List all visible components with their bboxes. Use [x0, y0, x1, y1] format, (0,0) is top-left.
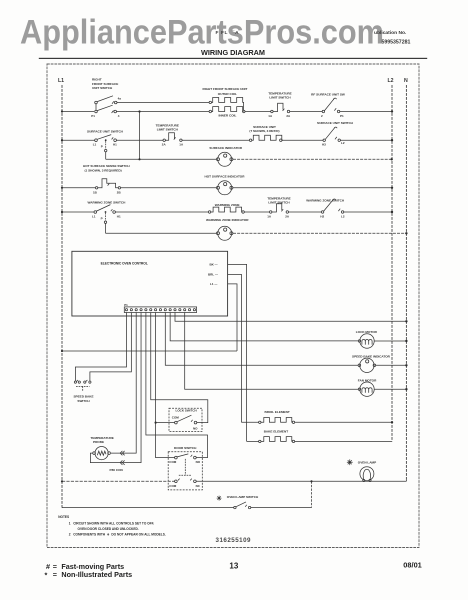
- label RIGHT FRONT SURFACE UNIT OUTER COIL: [203, 87, 248, 96]
- svg-text:COM: COM: [169, 460, 177, 464]
- svg-text:WARMING ZONE SWITCH: WARMING ZONE SWITCH: [306, 198, 345, 202]
- wire to L2 rail: [344, 211, 392, 213]
- svg-text:P: P: [101, 216, 103, 220]
- wire pigtail BRL to broil element drop: [228, 274, 242, 422]
- wire P drop warming: [104, 213, 106, 233]
- wire pin6 to lock switch NO: [151, 313, 208, 423]
- svg-text:WARMING ZONE SWITCH: WARMING ZONE SWITCH: [88, 200, 127, 204]
- wire pigtail L1 supply drop: [228, 284, 237, 351]
- svg-text:HOT SURFACE SENSE SWITCH: HOT SURFACE SENSE SWITCH: [83, 164, 130, 168]
- wire pin3 to temperature probe top: [111, 313, 136, 454]
- label R FRONT SURFACE UNIT SWITCH: [92, 78, 118, 91]
- svg-text:=: =: [53, 570, 57, 579]
- switch S12 door switch: [168, 446, 202, 490]
- svg-text:BAKE ELEMENT: BAKE ELEMENT: [264, 430, 289, 434]
- junction lamp switch riser: [310, 480, 312, 482]
- svg-text:LOCK SWITCH: LOCK SWITCH: [176, 409, 197, 413]
- junction dots L1 rail: [61, 110, 63, 112]
- junction L1 door row: [61, 480, 63, 482]
- svg-text:1 CIRCUIT SHOWN WITH ALL CON: 1 CIRCUIT SHOWN WITH ALL CONTROLS SET TO…: [69, 521, 154, 525]
- svg-text:DOOR SWITCH: DOOR SWITCH: [174, 446, 197, 450]
- motor M2 fan motor: [358, 382, 374, 396]
- connector P1 strip: [124, 307, 196, 313]
- resistor bake element: [247, 437, 392, 443]
- svg-text:RIGHT FRONT SURFACE UNIT: RIGHT FRONT SURFACE UNIT: [203, 87, 248, 91]
- svg-text:H2: H2: [320, 214, 324, 218]
- wire door NC to lamp to N rail: [196, 480, 406, 481]
- switch S7 warming zone switch: [94, 205, 115, 214]
- node L1: [58, 78, 64, 508]
- switch S2 temperature limit switch: [271, 103, 290, 113]
- svg-text:L2: L2: [388, 78, 394, 84]
- label TEMPERATURE LIMIT SWITCH: [268, 92, 291, 100]
- svg-text:H1: H1: [113, 143, 117, 147]
- svg-text:OVEN LAMP SWITCH: OVEN LAMP SWITCH: [227, 495, 259, 499]
- svg-text:(7 SHOWN, 3 RES'D): (7 SHOWN, 3 RES'D): [249, 129, 279, 133]
- svg-text:Non-Illustrated Parts: Non-Illustrated Parts: [61, 570, 132, 579]
- junction dots L2 rail: [391, 110, 393, 112]
- indicator DS2 hot surface indicator: [217, 181, 233, 195]
- svg-text:H1: H1: [117, 214, 121, 218]
- lamp E1 oven lamp: [360, 467, 374, 482]
- svg-text:L1: L1: [58, 78, 64, 84]
- resistor outer coil: [209, 98, 243, 111]
- wire row2 from L1: [62, 139, 95, 141]
- connector chevrons probe bottom: [120, 460, 124, 464]
- connector chevrons probe top: [120, 451, 124, 455]
- wire lock motor to N: [374, 340, 406, 342]
- wire temp limit to surface unit resistor: [182, 139, 249, 141]
- label OVEN LAMP with asterisk: [347, 458, 377, 467]
- wire pin13 to fan motor: [185, 313, 359, 390]
- indicator DS3 warming zone indicator: [217, 226, 233, 240]
- wire pin11 to N: [175, 313, 406, 322]
- svg-text:LIMIT SWITCH: LIMIT SWITCH: [157, 128, 179, 132]
- switch S8 temperature limit switch row4: [270, 204, 289, 214]
- wire P drop with connector: [105, 141, 107, 159]
- wire indicator to L2: [233, 187, 392, 189]
- wire row4b indicator wire: [106, 232, 217, 234]
- label OVEN LAMP SWITCH with asterisk: [216, 494, 259, 502]
- svg-text:F FL ¯A: F FL ¯A: [216, 29, 240, 36]
- wire resistor to temp limit: [244, 211, 269, 213]
- svg-text:P: P: [101, 145, 103, 149]
- junction dots N rail: [405, 232, 407, 234]
- label TEMPERATURE LIMIT SWITCH row2: [156, 124, 179, 132]
- svg-text:316255109: 316255109: [216, 537, 252, 544]
- switch S6 hot surface sense switch: [95, 179, 120, 189]
- svg-text:P1: P1: [340, 114, 344, 118]
- wire RF switch to L2: [340, 111, 392, 113]
- wire L1 supply row: [62, 350, 237, 352]
- wire pigtail BK to bake element drop: [228, 264, 247, 441]
- svg-text:L1: L1: [93, 143, 97, 147]
- label TEMPERATURE PROBE: [91, 436, 114, 444]
- svg-text:08/01: 08/01: [403, 561, 422, 570]
- wire indicator to L2: [233, 158, 392, 160]
- wire row4 to warming zone resistor: [115, 211, 208, 213]
- svg-text:13: 13: [229, 562, 238, 571]
- wire row3 to indicator: [121, 187, 217, 189]
- svg-text:BROIL ELEMENT: BROIL ELEMENT: [265, 410, 290, 414]
- svg-text:P86 CON: P86 CON: [110, 468, 124, 472]
- svg-text:N: N: [404, 78, 408, 84]
- svg-text:NOTES: NOTES: [58, 515, 69, 519]
- switch S14 temperature limit switch row2: [163, 133, 182, 142]
- svg-text:COM: COM: [169, 484, 177, 488]
- svg-text:BRL —: BRL —: [208, 273, 218, 277]
- switch S11 lock switch: [169, 408, 202, 431]
- svg-text:P1: P1: [91, 114, 95, 118]
- wire indicator to N rail: [233, 232, 406, 234]
- switch S4 surface unit switch: [95, 135, 117, 142]
- node N: [404, 78, 408, 481]
- wire resistor to right surface unit switch: [282, 139, 323, 141]
- resistor RT1 temperature probe: [90, 447, 124, 463]
- wire coil to temp limit switch: [245, 111, 271, 113]
- svg-text:OVEN DOOR CLOSED AND UNLOCKED.: OVEN DOOR CLOSED AND UNLOCKED.: [78, 527, 139, 531]
- svg-text:ELECTRONIC OVEN CONTROL: ELECTRONIC OVEN CONTROL: [101, 261, 148, 265]
- wire N rail: [405, 85, 407, 481]
- wire fan motor to N: [374, 388, 406, 390]
- wire lamp switch riser: [311, 481, 313, 507]
- wire pin7 to lock COM and door COM: [156, 313, 175, 458]
- wire temp limit to RF switch: [290, 111, 322, 113]
- svg-text:INNER COIL: INNER COIL: [219, 114, 237, 118]
- wire pin10 to lock motor: [170, 313, 358, 341]
- wire row4 from L1: [62, 211, 94, 213]
- svg-text:L1: L1: [92, 214, 96, 218]
- wire pin1 to speed bake switch: [75, 313, 126, 381]
- wire pin2 to speed bake switch: [90, 313, 131, 381]
- svg-text:WARMING ZONE INDICATOR: WARMING ZONE INDICATOR: [206, 218, 249, 222]
- op-amp U1 electronic oven control box: [72, 251, 228, 316]
- junction lock COM tee: [155, 422, 157, 424]
- svg-text:5995357281: 5995357281: [382, 40, 411, 46]
- svg-text:SPEED BAKE: SPEED BAKE: [73, 394, 93, 398]
- svg-text:SWITCH: SWITCH: [77, 399, 90, 403]
- wire row3 from L1: [62, 187, 95, 189]
- wire pin4 to temperature probe bottom: [124, 313, 141, 463]
- wire L2 rail: [391, 85, 393, 441]
- switch S10 speed bake switch: [74, 380, 91, 391]
- wire switch to L2 rail: [340, 139, 392, 141]
- svg-text:LIMIT SWITCH: LIMIT SWITCH: [269, 96, 291, 100]
- resistor inner coil: [209, 107, 245, 113]
- label SPEED BAKE SWITCH: [73, 394, 93, 403]
- wire lock COM: [156, 422, 175, 424]
- svg-text:SURFACE INDICATOR: SURFACE INDICATOR: [209, 146, 242, 150]
- svg-text:NO: NO: [196, 460, 201, 464]
- wire oven lamp row from L1 to door COM: [62, 480, 175, 482]
- svg-text:ublication No.: ublication No.: [374, 30, 407, 36]
- svg-text:SPEED BAKE INDICATOR: SPEED BAKE INDICATOR: [352, 354, 391, 358]
- resistor surface unit: [249, 135, 283, 141]
- svg-text:✳: ✳: [216, 494, 222, 502]
- svg-text:H3: H3: [322, 142, 326, 146]
- svg-text:OUTER COIL: OUTER COIL: [218, 92, 237, 96]
- wire speed bake indicator to N: [376, 364, 407, 366]
- svg-text:L2: L2: [341, 141, 345, 145]
- svg-text:WIRING DIAGRAM: WIRING DIAGRAM: [201, 48, 265, 57]
- resistor broil element: [241, 418, 392, 424]
- wire pin9 to speed bake indicator: [165, 313, 358, 366]
- indicator DS4 speed bake indicator: [358, 358, 376, 372]
- wire L1 rail: [61, 85, 63, 508]
- svg-text:LOCK MOTOR: LOCK MOTOR: [356, 330, 378, 334]
- svg-text:RF SURFACE UNIT SW: RF SURFACE UNIT SW: [311, 92, 345, 96]
- motor M1 lock motor: [358, 334, 374, 348]
- svg-text:HOT SURFACE INDICATOR: HOT SURFACE INDICATOR: [205, 175, 246, 179]
- svg-text:SURFACE UNIT SWITCH: SURFACE UNIT SWITCH: [317, 121, 354, 125]
- footer legend: [45, 561, 422, 580]
- wire drop row1 to row2b: [139, 112, 141, 160]
- label SURFACE UNIT (7 SHOWN, 3 REQ'D): [249, 125, 279, 133]
- svg-text:OVEN LAMP: OVEN LAMP: [358, 461, 376, 465]
- svg-text:LIMIT SWITCH: LIMIT SWITCH: [268, 200, 290, 204]
- switch S13 oven lamp switch: [234, 502, 251, 509]
- svg-text:4a: 4a: [118, 96, 122, 100]
- svg-text:*: *: [45, 571, 48, 580]
- svg-text:✳: ✳: [347, 458, 354, 467]
- notes block: [58, 515, 166, 536]
- svg-text:NO: NO: [193, 427, 198, 431]
- wire L1 rail bottom to oven lamp switch: [62, 507, 234, 509]
- wire lamp switch to riser: [251, 507, 312, 509]
- wire row1a switch to outer coil: [117, 101, 209, 103]
- wire row1b from L1 rail through switch: [62, 111, 94, 113]
- switch S1 right front surface unit switch: [95, 96, 117, 113]
- junction row1 drop: [138, 110, 140, 112]
- wire pin5 to door switch NO: [146, 313, 208, 458]
- svg-text:2 COMPONENTS WITH ✳ DO NOT: 2 COMPONENTS WITH ✳ DO NOT APPEAR ON ALL…: [69, 532, 166, 536]
- wire temp limit to warming switch right: [289, 211, 322, 213]
- svg-text:COM: COM: [172, 416, 180, 420]
- label HOT SURFACE SENSE SWITCH (1 SHOWN, 3 REQUIRED): [83, 164, 130, 173]
- label TEMPERATURE LIMIT SWITCH row4: [267, 197, 290, 205]
- switch S9 warming zone switch right: [321, 199, 343, 213]
- junction L1 supply: [61, 350, 63, 352]
- wire row2b: [106, 158, 217, 160]
- node L2: [388, 78, 394, 441]
- indicator DS1 surface indicator: [217, 152, 233, 166]
- svg-text:WARMING ZONE: WARMING ZONE: [215, 203, 240, 207]
- svg-text:PROBE: PROBE: [93, 440, 104, 444]
- svg-text:FAN MOTOR: FAN MOTOR: [358, 379, 377, 383]
- junction row2b: [138, 158, 140, 160]
- wire row2 switch to temp limit switch: [116, 139, 163, 141]
- svg-text:UNIT SWITCH: UNIT SWITCH: [92, 86, 113, 90]
- switch S5 surface unit switch right: [323, 127, 340, 141]
- resistor warming zone element: [208, 207, 244, 213]
- switch S3 RF surface unit switch: [322, 98, 340, 113]
- svg-text:SURFACE UNIT SWITCH: SURFACE UNIT SWITCH: [87, 129, 124, 133]
- svg-text:P1: P1: [124, 303, 128, 307]
- svg-text:L2: L2: [341, 214, 345, 218]
- svg-text:BK —: BK —: [210, 263, 218, 267]
- svg-text:AppliancePartsPros.com: AppliancePartsPros.com: [20, 14, 384, 52]
- svg-text:(1 SHOWN, 3 REQUIRED): (1 SHOWN, 3 REQUIRED): [85, 168, 122, 172]
- svg-text:L1 —: L1 —: [210, 282, 217, 286]
